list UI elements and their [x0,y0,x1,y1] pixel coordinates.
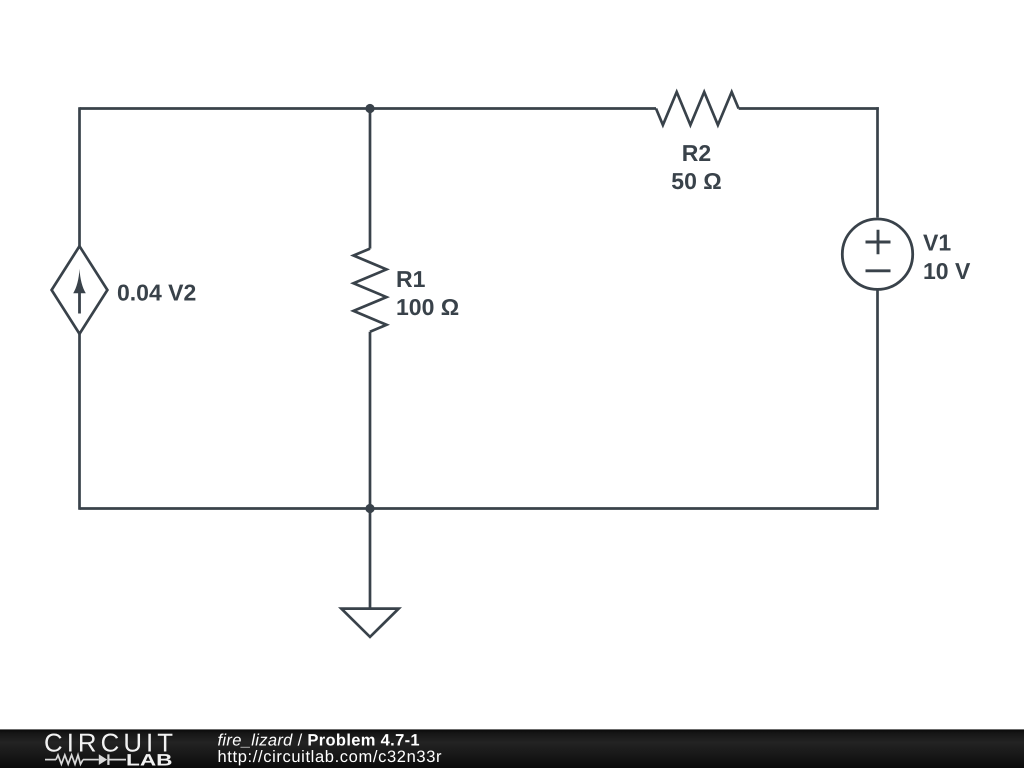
wire top-left to node A [80,107,371,110]
svg-text:LAB: LAB [126,752,173,768]
ground symbol [341,609,398,637]
svg-text:http://circuitlab.com/c32n33r: http://circuitlab.com/c32n33r [218,748,443,766]
node A junction dot [365,104,374,113]
wire top-right corner down to V1 top [876,107,879,217]
V1 plus sign [866,230,891,255]
svg-text:50 Ω: 50 Ω [671,168,721,194]
CircuitLab logo resistor-diode glyph [45,754,126,765]
wire node B down to ground [369,509,372,609]
I1 arrow head [73,269,86,293]
resistor R2 zigzag [656,92,739,125]
I1 arrow shaft [78,291,81,314]
node B junction dot [365,504,374,513]
svg-text:100 Ω: 100 Ω [396,294,459,320]
wire node B to bottom-left corner [80,507,371,510]
wire R2 right lead to top-right corner [739,107,879,110]
svg-text:fire_lizard / Problem 4.7-1: fire_lizard / Problem 4.7-1 [218,732,420,750]
resistor R1 zigzag [354,249,387,332]
wire I1 bottom to bottom-left corner [78,334,81,510]
wire V1 bottom to bottom-right corner [876,291,879,510]
svg-text:R1: R1 [396,266,426,292]
V1 minus sign [866,269,891,272]
footer bar [0,729,1024,768]
svg-text:0.04 V2: 0.04 V2 [117,280,196,306]
wire node A to R2 left lead [370,107,656,110]
svg-text:R2: R2 [682,140,711,166]
wire node A down to R1 top lead [369,109,372,249]
wire R1 bottom lead to node B [369,332,372,509]
svg-text:10 V: 10 V [923,258,971,284]
dependent current source I1 diamond [52,246,108,334]
voltage source V1 circle [842,219,912,289]
wire bottom-right corner to node B [370,507,878,510]
wire top-left corner down to I1 top [78,107,81,246]
svg-text:V1: V1 [923,230,951,256]
